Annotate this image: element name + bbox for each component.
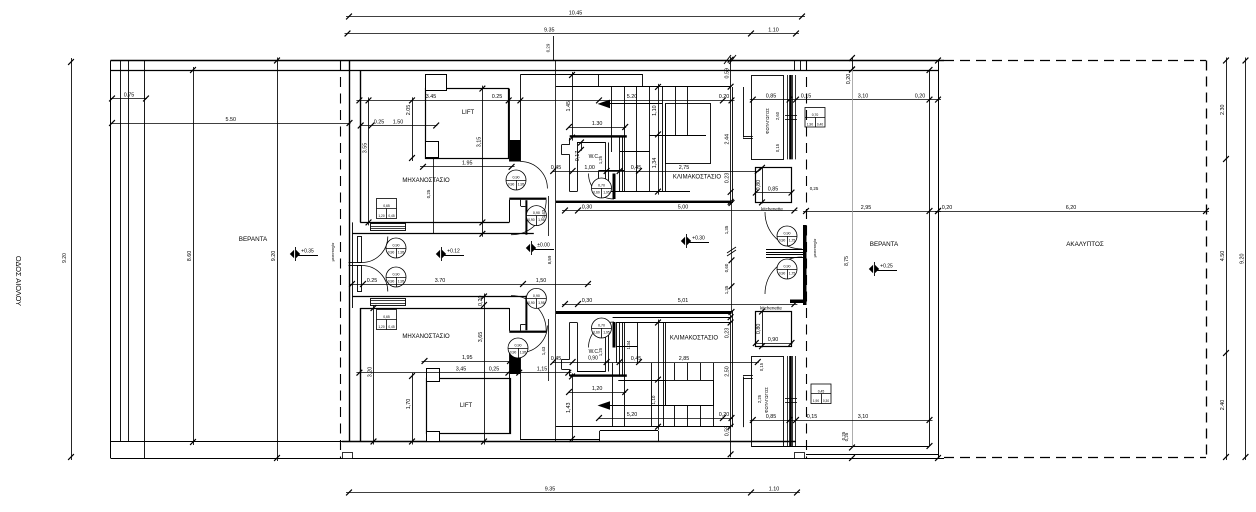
svg-text:0,20: 0,20 [719,412,730,418]
right veranda bottom line [752,446,930,448]
level mark +0.12 [436,250,440,259]
unit door bot leaf [358,266,362,292]
stair direction line b [604,405,712,407]
break mark top line [724,55,731,64]
svg-text:1,20: 1,20 [378,325,384,329]
svg-text:0.75: 0.75 [124,92,135,98]
lift column bot bl [427,432,440,442]
lift shaft top [426,89,509,159]
svg-text:ΦΩΤΑΓΩΓΟΣ: ΦΩΤΑΓΩΓΟΣ [765,108,770,134]
svg-text:0,60: 0,60 [593,331,600,335]
veranda dim 5.50 [111,123,351,125]
wc top wall band [570,135,627,137]
mr dim 3.45-0.25 bottom [356,372,571,374]
stair right wall lines top [732,87,734,203]
svg-text:0,15: 0,15 [759,362,764,371]
mr window sill bottom [371,299,406,306]
mr dim 1.95 top [420,166,515,168]
svg-text:0,90: 0,90 [768,337,779,343]
mr door leaf top [525,200,527,235]
plot bottom second line right [806,454,938,456]
mr top band lower line bottom [352,296,534,298]
svg-text:3,10: 3,10 [858,93,869,99]
svg-text:1,43: 1,43 [541,209,546,218]
mid dim 0.25-3.70-1.50 [349,284,591,286]
svg-text:2,50: 2,50 [725,366,731,377]
mr door arc top [511,200,546,235]
dashed boundary top [944,60,1206,62]
right bottom dim chain [750,420,933,422]
corridor vdim 1.43 top [548,196,550,236]
svg-text:ΦΩΤΑΓΩΓΟΣ: ΦΩΤΑΓΩΓΟΣ [764,387,769,413]
svg-text:1,90: 1,90 [807,123,813,127]
glazing top [787,75,789,159]
unit door top leaf [358,237,362,263]
kit dim 0.90 bottom [755,343,793,345]
bottom edge mark right [795,453,805,459]
corridor door tag top [506,170,526,190]
svg-text:5,00: 5,00 [678,204,689,210]
stair well rect b [666,381,714,406]
svg-text:0,70: 0,70 [598,323,605,327]
right top dim chain [750,99,941,101]
svg-text:5,01: 5,01 [678,298,689,304]
top dim 9.35-1.10 [345,33,800,35]
svg-text:0,85: 0,85 [768,186,779,192]
svg-text:ΜΗΧΑΝΟΣΤΑΣΙΟ: ΜΗΧΑΝΟΣΤΑΣΙΟ [402,178,450,184]
svg-text:1,95: 1,95 [398,280,405,284]
svg-text:3,15: 3,15 [476,137,482,148]
svg-text:ΑΚΑΛΥΠΤΟΣ: ΑΚΑΛΥΠΤΟΣ [1066,241,1104,248]
svg-text:1,34: 1,34 [626,340,631,349]
veranda wall line a [120,61,122,443]
between doors lines [349,262,362,264]
svg-text:3.45: 3.45 [426,94,437,100]
svg-text:0,20: 0,20 [942,205,953,211]
corridor door tag bottom [508,338,528,358]
svg-text:6,20: 6,20 [1066,205,1077,211]
wall under stairs top [556,201,732,203]
svg-text:0,30: 0,30 [582,298,593,304]
svg-text:0,90: 0,90 [513,175,520,179]
mr door lintel top [509,198,546,200]
svg-text:0,45: 0,45 [818,389,825,393]
svg-text:1,20: 1,20 [592,386,603,392]
mr door leaf bottom [525,296,527,331]
stair line y135 [649,135,706,137]
mr dim chain top [356,100,734,102]
svg-text:1,50: 1,50 [536,278,547,284]
wall over stairs bottom [556,311,732,314]
stair vdim 1.34-1.10 bottom [658,320,660,430]
threshold lines [766,249,803,251]
svg-text:0,20: 0,20 [478,296,484,307]
svg-text:1,10: 1,10 [651,395,656,404]
svg-text:0,85: 0,85 [766,93,777,99]
svg-text:2,85: 2,85 [679,356,690,362]
entrance stub wall [790,300,806,304]
wc niche top [569,138,571,145]
svg-text:1,35: 1,35 [724,225,729,234]
lightwell room top [752,76,784,160]
building left wall mid [352,222,354,308]
mr door step bottom [520,324,522,330]
lightwell room bottom [752,357,784,447]
mr bottom band top line [360,222,509,224]
svg-text:±0.00: ±0.00 [537,242,550,248]
level mark +0.25 right [869,265,873,274]
svg-text:0,30: 0,30 [582,204,593,210]
svg-text:0,45: 0,45 [551,165,562,171]
svg-text:0,45: 0,45 [551,356,562,362]
svg-text:1.45: 1.45 [566,101,572,112]
svg-text:5,20: 5,20 [627,412,638,418]
mr right wall line top [509,200,511,223]
svg-text:1,43: 1,43 [541,346,546,355]
svg-text:0,90: 0,90 [528,301,535,305]
svg-text:9.35: 9.35 [545,486,556,492]
corridor door arc bottom [520,326,547,353]
mr vdim 3.55 top [368,97,370,225]
svg-text:1,70: 1,70 [406,399,412,410]
lift column bot tl [427,369,440,382]
wc door leaf top [613,174,616,200]
stair lower treads [624,152,626,192]
mr door arc bottom [511,296,546,331]
svg-text:2.30: 2.30 [1220,105,1226,116]
stair dim 0.30-5.00 top [562,210,797,212]
stair landing bot rect [600,430,658,432]
stair stub top [743,136,753,138]
svg-text:5.20: 5.20 [627,94,638,100]
entrance bot arc [765,257,802,294]
svg-text:0,90: 0,90 [515,343,522,347]
akalyptos dim 6.20 [935,211,1209,213]
svg-text:0,17: 0,17 [575,151,581,162]
svg-text:0,45: 0,45 [631,165,642,171]
unit door bot tag [386,267,406,287]
mr dim 0.25-1.50 top [360,125,438,127]
svg-text:0,90: 0,90 [393,243,400,247]
building left wall outer [349,61,351,442]
svg-text:0,15: 0,15 [807,414,818,420]
svg-text:3,20: 3,20 [368,367,374,378]
svg-text:2,95: 2,95 [861,205,872,211]
unit door top tag [386,238,406,258]
svg-text:0.59: 0.59 [725,68,731,79]
plot left boundary [110,61,112,459]
mr door step top [520,200,522,206]
svg-text:1,34: 1,34 [652,158,658,169]
svg-text:+0.12: +0.12 [447,248,460,254]
svg-text:3.55: 3.55 [363,143,369,154]
mr right wall line bottom [509,308,511,331]
mr window tag top [377,199,397,219]
svg-text:0,90: 0,90 [508,183,515,187]
stair vdim 1.35-0.60-1.35 right [731,203,733,312]
mr vdim 0.25 top [433,158,435,234]
svg-text:1,75: 1,75 [789,239,796,243]
svg-text:2.40: 2.40 [1220,400,1226,411]
entrance bot tag [777,259,797,279]
stair line y152 [620,151,649,153]
wc door leaf bottom [613,322,616,348]
kit dim 0.85 top [755,192,793,194]
entrance top tag [777,226,797,246]
svg-text:0,45: 0,45 [631,356,642,362]
wc vdim 0.17 top [581,142,583,151]
svg-text:+0.25: +0.25 [880,263,893,269]
vdim 8.59 center [555,61,557,442]
svg-text:1.10: 1.10 [769,486,780,492]
lift column top tl [426,75,447,91]
plot top boundary [111,60,945,62]
svg-text:0,90: 0,90 [779,239,786,243]
wc duct wall bottom [619,322,621,376]
svg-text:1,00: 1,00 [584,165,595,171]
corridor door arc top [520,162,547,189]
svg-text:0,90: 0,90 [779,272,786,276]
right veranda vdim 0.25 bottom [849,455,855,461]
mr door lintel bottom [509,331,546,333]
svg-text:ΒΕΡΑΝΤΑ: ΒΕΡΑΝΤΑ [870,241,899,248]
stair arrow [598,100,611,109]
svg-text:9.20: 9.20 [271,251,277,262]
stair dim 0.30-5.01 bottom [562,304,797,306]
stair vdim 0.23-2.50 bottom [730,314,732,457]
lift column top bl [426,142,439,158]
right veranda vdim 8.75 [852,70,854,448]
svg-text:1,90: 1,90 [813,399,819,403]
wc door arc bottom [589,322,615,348]
plot right boundary [938,61,940,459]
wc room top [577,143,579,192]
mr top band line bottom [360,308,509,310]
plot bottom second line [111,441,343,443]
stair line y380 b [618,380,666,382]
svg-text:0,65: 0,65 [383,204,390,208]
stair vdim 1.43 b [572,373,574,442]
corridor wall lines top [509,89,511,162]
right dim chain 2.30-4.50-2.40 [1226,58,1228,461]
stair landing top line [520,74,642,76]
svg-text:2,75: 2,75 [679,165,690,171]
svg-text:0,15: 0,15 [775,143,780,152]
svg-text:2,60: 2,60 [775,111,780,120]
lightwell tag bottom [811,384,831,404]
stair main top line [556,86,732,88]
svg-text:ΒΕΡΑΝΤΑ: ΒΕΡΑΝΤΑ [239,236,268,243]
entrance top arc [765,212,802,249]
svg-text:0.23: 0.23 [725,173,731,184]
stair bottom treads [612,363,614,427]
svg-text:4.50: 4.50 [1220,251,1226,262]
svg-text:0,25: 0,25 [426,189,431,198]
svg-text:3,65: 3,65 [478,332,484,343]
svg-text:0,85: 0,85 [766,414,777,420]
svg-text:0,60: 0,60 [724,263,729,272]
svg-text:0,90: 0,90 [510,351,517,355]
stair mid wall b [663,323,665,427]
svg-text:0,70: 0,70 [812,113,819,117]
veranda vdim 8.60 [193,67,195,445]
svg-text:1,75: 1,75 [789,272,796,276]
corridor vdim 1.43 bottom [548,319,550,381]
svg-text:0,80: 0,80 [756,180,762,191]
svg-text:ΚΛΙΜΑΚΟΣΤΑΣΙΟ: ΚΛΙΜΑΚΟΣΤΑΣΙΟ [670,336,718,342]
svg-text:0,25: 0,25 [489,367,500,373]
svg-text:1,95: 1,95 [603,191,610,195]
svg-text:3.70: 3.70 [435,278,446,284]
entrance wall right [803,225,807,305]
mr dim 1.95 bottom [422,361,514,363]
corridor wall lines bottom [509,353,511,434]
svg-text:1,15: 1,15 [537,367,548,373]
glazing bottom [787,356,789,446]
corridor door2 tag bottom [526,288,546,308]
svg-text:1,95: 1,95 [462,355,473,361]
party wall dashed left [340,61,342,459]
kitchenette room bottom [756,312,792,347]
plot bottom boundary [111,458,945,460]
veranda wall line b [128,61,130,443]
svg-text:1,10: 1,10 [652,105,658,116]
svg-text:ΜΗΧΑΝΟΣΤΑΣΙΟ: ΜΗΧΑΝΟΣΤΑΣΙΟ [402,334,450,340]
svg-text:0.25: 0.25 [367,278,378,284]
svg-text:0,90: 0,90 [388,251,395,255]
stair dim 1.20 bottom [568,392,626,394]
svg-text:0.29: 0.29 [546,43,551,52]
svg-text:1.50: 1.50 [393,119,404,125]
wc dim chain top [552,171,759,173]
svg-text:0,80: 0,80 [756,324,762,335]
plot top second line [111,70,939,72]
stair dim 5.20-0.20 bottom [598,418,733,420]
mr window sill top [371,224,406,231]
kitchenette room top [756,168,792,203]
svg-text:1,95: 1,95 [538,301,545,305]
stair landing left edge [598,74,600,87]
wc duct wall top [619,137,621,191]
svg-text:0,90: 0,90 [533,294,540,298]
svg-text:0,90: 0,90 [588,356,598,362]
veranda wall line c [144,61,146,459]
svg-text:3,10: 3,10 [858,414,869,420]
svg-text:1,95: 1,95 [520,351,527,355]
svg-text:ΚΛΙΜΑΚΟΣΤΑΣΙΟ: ΚΛΙΜΑΚΟΣΤΑΣΙΟ [673,175,721,181]
svg-text:0,23: 0,23 [725,328,731,339]
building left wall inner top [360,70,362,222]
right veranda top line [806,70,938,72]
svg-text:8.60: 8.60 [187,251,193,262]
mr window tag bottom [377,310,397,330]
wc room bottom [577,322,579,371]
svg-text:10.45: 10.45 [569,10,583,16]
dashed boundary right [1206,61,1208,458]
stair nib b [616,346,638,348]
wc door tag top [592,178,612,198]
stair vdim 1.10-1.34 top [658,84,660,195]
svg-text:1,35: 1,35 [724,285,729,294]
svg-text:9.20: 9.20 [1240,254,1246,265]
corridor wall cap bottom [510,353,521,375]
svg-text:0,45: 0,45 [388,325,394,329]
svg-text:5.50: 5.50 [226,117,237,123]
stair top line y317 b [613,317,732,319]
svg-text:0,90: 0,90 [784,231,791,235]
lightwell tag top [805,108,825,128]
top small dim 0.29 [553,36,555,60]
svg-text:1,95: 1,95 [398,251,405,255]
right veranda right wall [929,70,931,446]
svg-text:+0.35: +0.35 [301,248,314,254]
svg-text:0,30: 0,30 [823,399,829,403]
mr vdim 3.15 top [482,86,484,237]
stair stub bottom [743,375,753,377]
svg-text:2.44: 2.44 [725,134,731,145]
right veranda dim 2.95-0.20 [803,211,941,213]
svg-text:0,90: 0,90 [533,211,540,215]
corridor door2 tag top [526,206,546,226]
stair right wall lines bottom [732,311,734,427]
stair upper treads [611,87,613,152]
kit vdim 0.80 bottom [762,311,764,348]
svg-text:μεσοτοιχία: μεσοτοιχία [330,242,335,261]
svg-text:0.20: 0.20 [719,94,730,100]
stair arrow b [598,401,611,410]
svg-text:0,90: 0,90 [388,280,395,284]
svg-text:0,60: 0,60 [593,191,600,195]
mr vdim 1.70 bottom [412,373,414,445]
stair vdim 0.59-2.44-0.23 top [730,57,732,205]
top dim 10.45 [346,16,805,18]
svg-text:0,59: 0,59 [725,426,731,437]
top wall step right [794,61,796,71]
mr vdim 3.20 bottom [373,305,375,445]
right dim 9.20 [1245,58,1247,461]
svg-text:1.95: 1.95 [462,161,473,167]
svg-text:9.35: 9.35 [544,27,555,33]
stair direction line [604,103,662,105]
svg-text:0.25: 0.25 [374,119,385,125]
mr vdim 0.20-3.65 bottom [484,294,486,445]
svg-text:1,95: 1,95 [518,183,525,187]
svg-text:1,20: 1,20 [378,214,384,218]
svg-text:8,75: 8,75 [844,256,850,266]
building bottom wall [342,441,796,443]
svg-text:1,25: 1,25 [598,155,603,164]
stair dim 1.30 top [568,127,626,129]
stair landing right edge [642,74,644,87]
dashed boundary bottom [944,457,1206,459]
svg-text:0,20: 0,20 [915,93,926,99]
svg-text:0,20: 0,20 [846,74,852,85]
unit door top arc [362,237,388,263]
bottom dim 9.35-1.10 [346,492,800,494]
svg-text:0,40: 0,40 [817,123,823,127]
party wall dashed right [806,61,808,459]
unit door bot arc [362,266,388,292]
svg-text:+0.30: +0.30 [692,235,705,241]
svg-text:1,25: 1,25 [598,347,603,356]
stair vdim 1.45 top [572,72,574,141]
wc door arc top [589,174,615,200]
level mark +0.35 [290,250,294,259]
stair nib [599,170,625,172]
svg-text:2.05: 2.05 [406,105,412,116]
stair upper treads b [616,323,618,364]
svg-text:0,90: 0,90 [393,272,400,276]
